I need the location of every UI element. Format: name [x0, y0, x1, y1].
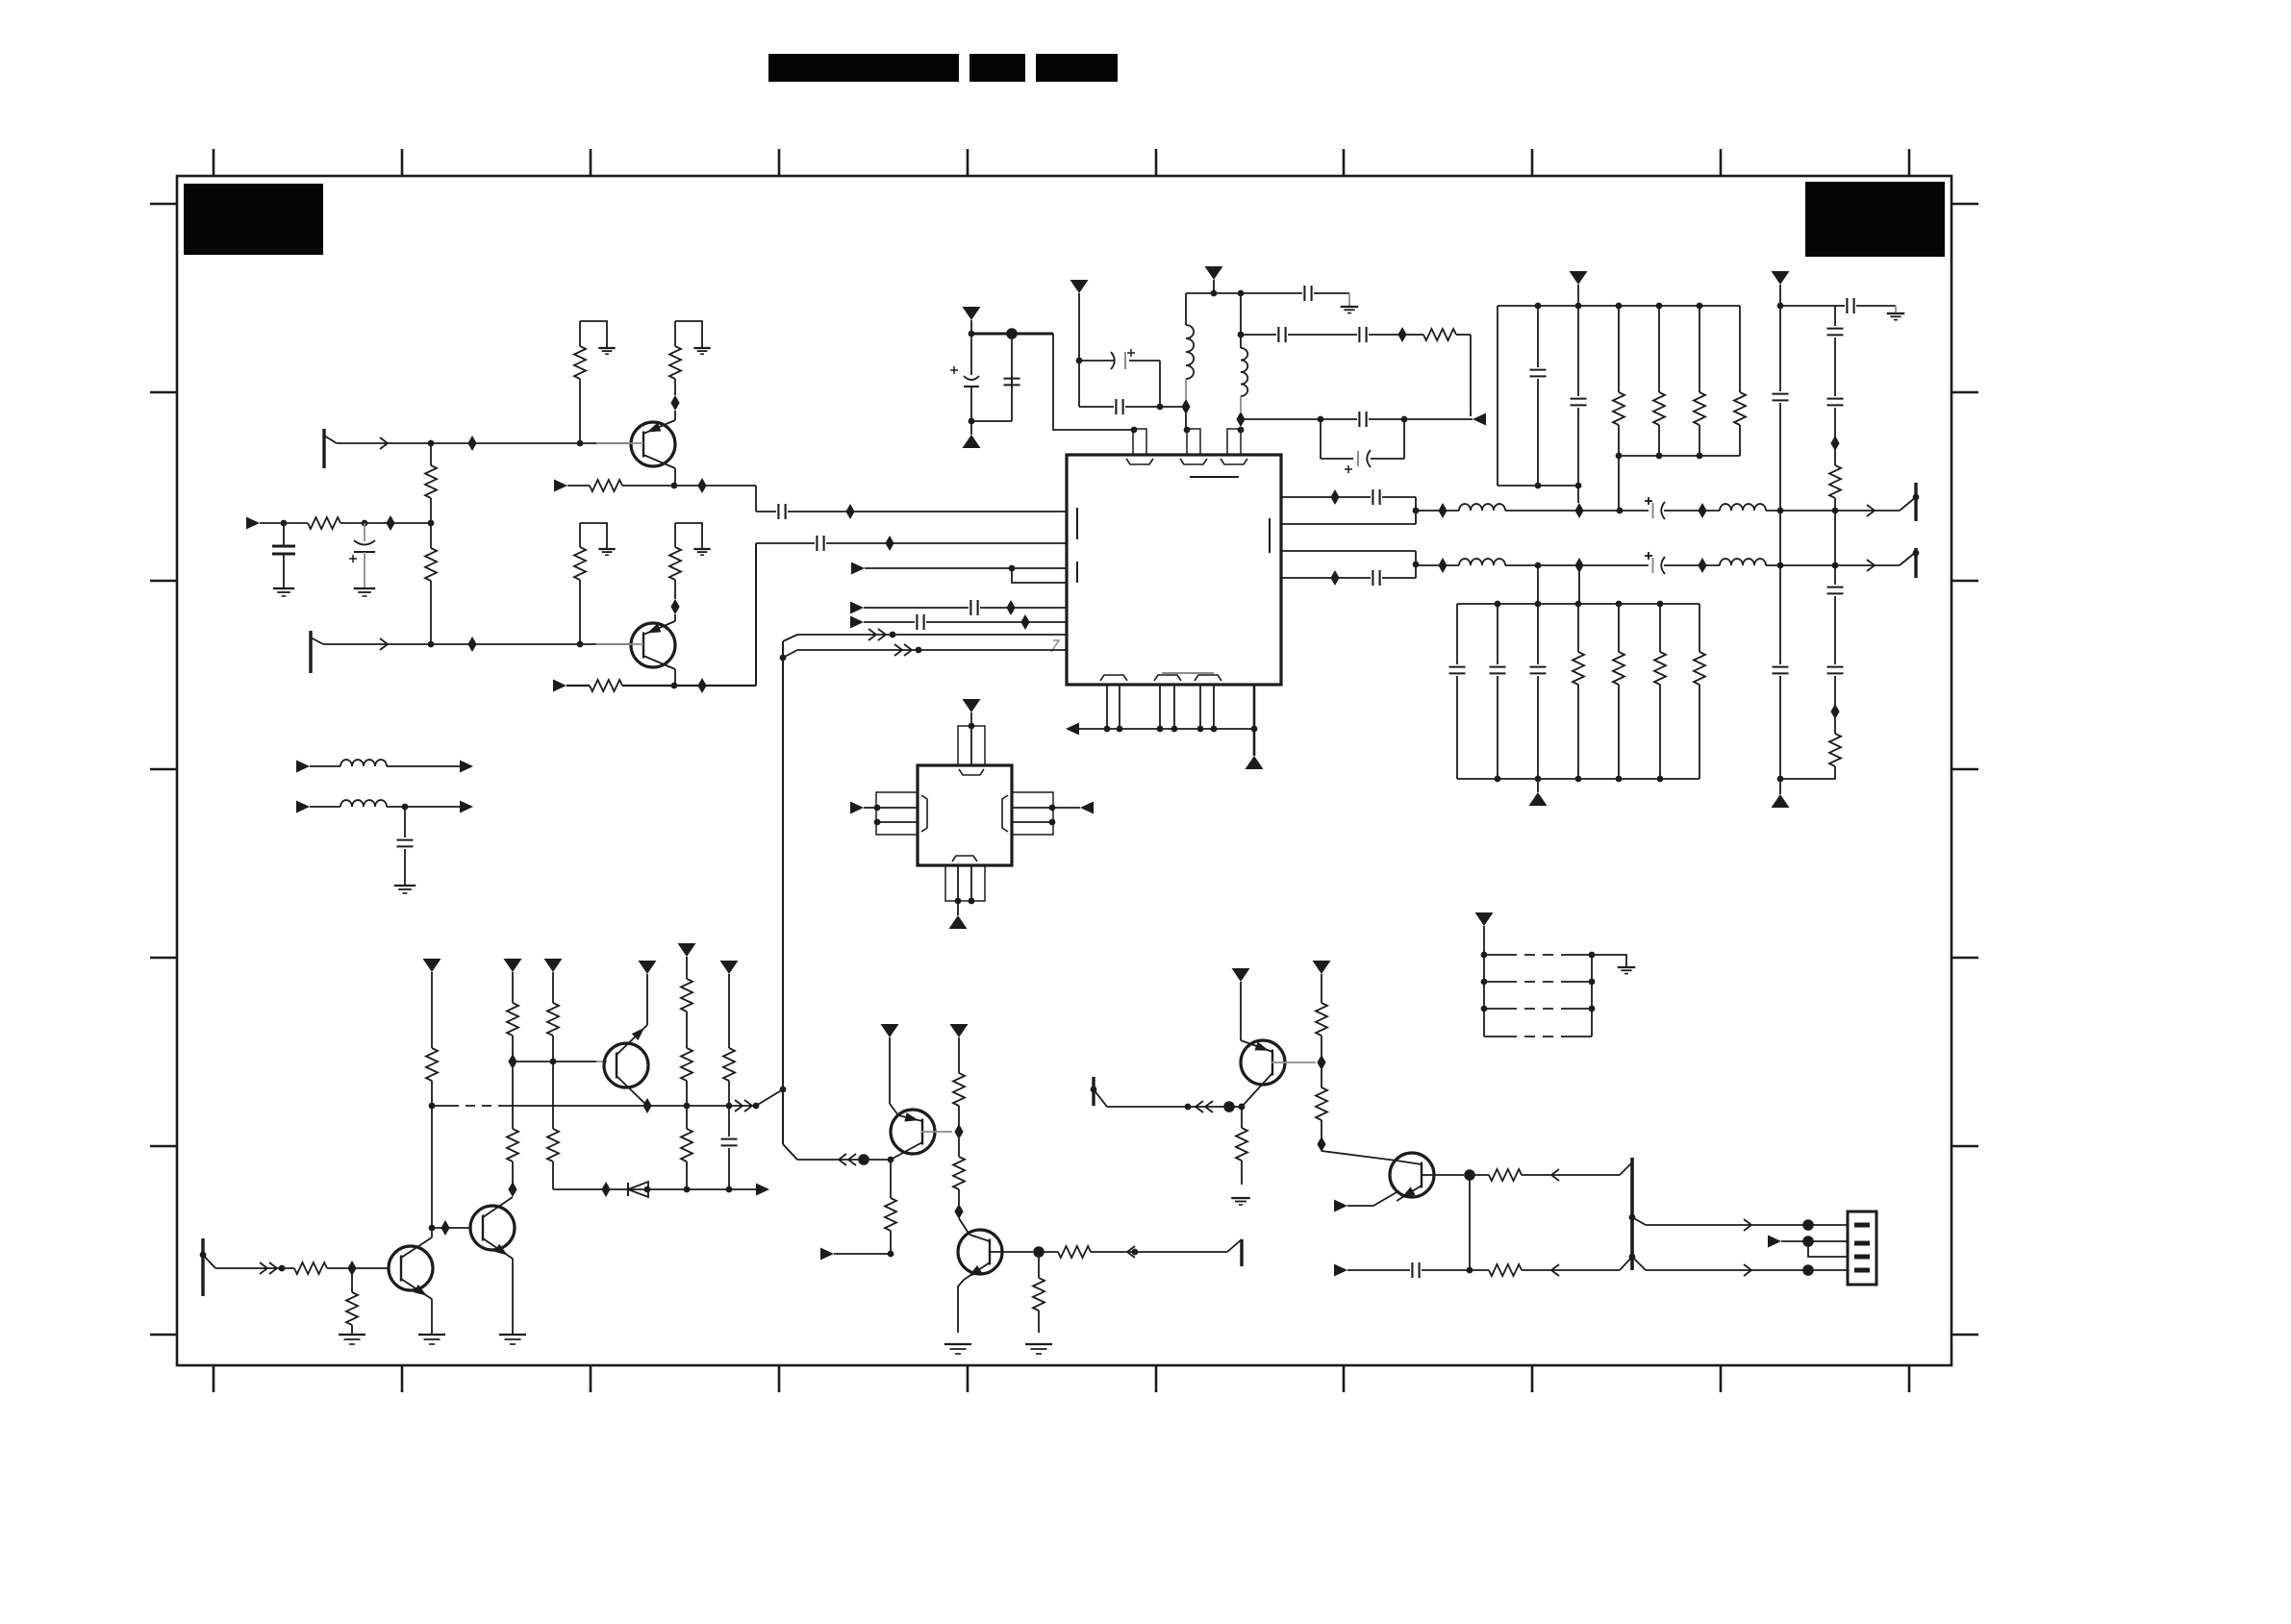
rail 533 chain	[512, 972, 514, 1003]
power arrow V14	[950, 1024, 969, 1037]
transistor Q8 PNP mirrored	[1241, 1040, 1285, 1085]
transistor Q7	[958, 1230, 1002, 1274]
jack J5	[1092, 1077, 1095, 1106]
diag to Q9 emitter	[1322, 1151, 1397, 1161]
thick supply wire	[971, 333, 1053, 336]
filter arrow out 1	[460, 761, 473, 773]
power arrow V8	[504, 959, 522, 972]
transistor Q6 PNP mirrored	[891, 1110, 935, 1154]
wire corner to IC pin a	[755, 486, 757, 512]
wire R8 bus to line1	[1618, 456, 1620, 511]
ground arrow lower bank	[1537, 779, 1539, 792]
corner label block top-left	[184, 184, 323, 255]
Q8 base wire	[1271, 1062, 1316, 1063]
wire U1 left pin c	[851, 562, 865, 575]
right column C22 C23 R17	[1834, 565, 1836, 585]
U2 ground arrow	[957, 901, 959, 915]
node U1 pin2 top	[1184, 427, 1191, 434]
input arrow mid	[246, 517, 260, 530]
U2 left socket	[921, 795, 927, 832]
power arrow V5	[1772, 271, 1790, 285]
Q8 emitter rail	[1240, 982, 1242, 1040]
corner label block top-right	[1805, 182, 1945, 257]
power arrow V1	[963, 307, 981, 320]
audio line 2	[1416, 564, 1459, 566]
bottom row capacitor C25 R33	[1334, 1264, 1347, 1277]
U1 right pin tick	[1269, 518, 1271, 553]
right chain C15 C16 diamond R12	[1834, 306, 1836, 326]
connector J7 body	[1848, 1212, 1876, 1285]
capacitor C2 electrolytic	[364, 523, 365, 541]
resistor R32 row	[1470, 1174, 1489, 1176]
long bus wire from U1 to switch section	[782, 641, 784, 1144]
lower bank bottom bus	[1457, 778, 1699, 780]
jack line1 output	[1900, 497, 1916, 511]
bracket and ground R4	[675, 321, 702, 347]
power arrow V2	[1070, 280, 1089, 293]
jack J6 lower lead	[1620, 1257, 1632, 1270]
resistor R11	[1739, 306, 1741, 392]
Q2 emitter lead	[674, 614, 676, 621]
U1 top pin 3	[1227, 429, 1241, 455]
filter arrow out 2	[460, 801, 473, 813]
wire Q1 collector row	[554, 480, 567, 492]
base node big dot	[1033, 1246, 1045, 1258]
ground jumper	[1618, 966, 1635, 968]
power arrow V16	[1313, 961, 1331, 974]
resistor R31 Q8 collector	[1241, 1107, 1243, 1128]
wire diamond link down	[1578, 565, 1580, 604]
resistor R3 pull Q1 base	[579, 321, 581, 346]
transistor Q1 PNP	[631, 422, 675, 466]
Q7 base wire	[989, 1251, 1033, 1253]
diode D1	[627, 1183, 629, 1196]
U2 bottom socket	[952, 856, 977, 862]
U1 top pin 1	[1133, 429, 1146, 455]
arrow left marker	[1473, 413, 1486, 426]
power arrow V17	[1475, 912, 1494, 926]
filter arrow in 2	[296, 801, 310, 813]
U1 bottom bus	[1066, 723, 1079, 736]
U1 bottom pin sockets	[1100, 675, 1127, 681]
link line1-line2 column b	[1834, 511, 1836, 565]
wire V2 down	[1078, 293, 1080, 361]
arrow end line 1237	[756, 1184, 769, 1196]
capacitor C13 to ground	[1835, 305, 1845, 307]
input jack J1	[322, 429, 325, 468]
diagonal to long bus	[756, 1089, 783, 1106]
wire to coil L1 node	[1160, 406, 1182, 408]
transistor Q9	[1390, 1153, 1434, 1197]
title redaction bar 1	[768, 54, 959, 82]
rail 449 with R18	[431, 972, 433, 1048]
rail 575 chain	[552, 972, 554, 1003]
resistor R15	[1659, 604, 1661, 652]
Q7 emitter diag	[959, 1218, 969, 1235]
U1 label line bottom	[1162, 672, 1214, 674]
ground arrow right column	[1779, 779, 1781, 794]
jack J6 tall bar	[1620, 1162, 1632, 1175]
power arrow V7	[423, 959, 441, 972]
wire input 3	[215, 1267, 294, 1269]
wire J5 to Q8 collector	[1107, 1106, 1242, 1108]
power arrow V15	[1232, 968, 1250, 982]
Q5 emitter to ground	[431, 1299, 433, 1334]
line 1237 diode row	[553, 1188, 756, 1190]
wire L1 top corner	[1186, 292, 1214, 294]
rail 997 chain R25 R26	[958, 1037, 960, 1073]
rail 715 lower resistor R22	[686, 1106, 688, 1129]
title redaction bar 2	[969, 54, 1025, 82]
wire U1 right pin 4	[1281, 577, 1371, 579]
ground Q5	[418, 1334, 445, 1336]
capacitor C7 to ground	[1241, 292, 1302, 294]
wire C12 to line1	[1577, 486, 1579, 503]
ground arrow up	[970, 421, 972, 435]
wire to L2 top	[1214, 292, 1241, 294]
connector J7 pins	[1854, 1223, 1870, 1228]
capacitor C6	[1078, 361, 1080, 407]
resistor R5 pull Q2 base	[579, 523, 581, 547]
capacitor C4	[971, 420, 1012, 422]
resistor R19 to ground	[351, 1268, 353, 1292]
audio line 1	[1416, 510, 1459, 512]
rail 758 capacitor C24	[728, 1106, 730, 1137]
Q5 collector link	[431, 1228, 433, 1237]
resistor R24 below Q6	[890, 1160, 892, 1198]
U2 top socket	[959, 769, 984, 775]
U1 label line top	[1190, 476, 1239, 478]
capacitor C26	[404, 807, 406, 837]
rail 1374 chain R29 R30	[1321, 974, 1322, 1003]
U1 ground stem and up arrow	[1253, 685, 1256, 756]
transistor Q3 PNP	[604, 1043, 648, 1087]
input jack J3	[201, 1238, 204, 1296]
right column C20 C21	[1779, 565, 1781, 664]
wire input 1 to Q1 base	[337, 442, 632, 444]
wire U1 pin3 feedback row	[1241, 418, 1357, 420]
Q3 base wire	[513, 1061, 596, 1062]
U2 right socket	[1002, 795, 1008, 832]
diamond L2 bottom	[1236, 412, 1245, 427]
wire U1 right pin 3	[1281, 550, 1416, 552]
resistor R28 to ground	[1038, 1252, 1040, 1278]
branch pin3	[1808, 1241, 1848, 1257]
wire line2 tap down	[1537, 565, 1539, 604]
wire input 2 to Q2 base	[323, 643, 632, 645]
ground Q4	[499, 1334, 526, 1336]
U1 left pin ticks	[1076, 508, 1078, 539]
resistor R7	[1410, 334, 1423, 336]
wire U1 left pin e	[850, 616, 864, 629]
wire U1 right pin 2	[1281, 523, 1416, 525]
IC U2 body	[918, 765, 1012, 865]
wire leg plain	[1497, 306, 1498, 486]
diamond node Q2 emitter	[670, 599, 679, 614]
bracket and ground R6	[675, 523, 702, 548]
resistor R6 pull Q2 emitter	[674, 523, 676, 547]
capacitor C12	[1577, 306, 1579, 396]
border tick marks left	[150, 203, 177, 206]
rail 758 resistor R23	[728, 974, 730, 1048]
loop corner	[1159, 361, 1161, 407]
jack line2 output	[1900, 552, 1916, 565]
power arrow V9	[544, 959, 563, 972]
input arrow b	[820, 1248, 834, 1261]
filter arrow in 1	[296, 761, 310, 773]
bracket and ground R5	[580, 523, 607, 548]
row to connector pin4	[1646, 1269, 1848, 1271]
wire U1 right pin 1	[1281, 496, 1371, 498]
Q6 base to rail	[921, 1131, 952, 1133]
wire Q2 collector row	[553, 680, 566, 692]
resistor R1 divider upper	[430, 443, 432, 465]
wire from long bus to Q6 collector	[797, 1159, 891, 1161]
power arrow V4	[1570, 271, 1588, 285]
link down from Q9 base	[1469, 1175, 1471, 1270]
wire down to arrow node	[1470, 335, 1472, 416]
U1 bottom pin wires	[1106, 685, 1108, 729]
inductor L3	[310, 765, 340, 767]
Q3 emitter feed	[646, 974, 648, 1025]
resistor R9	[1658, 306, 1660, 392]
Q2 collector lead	[674, 669, 676, 686]
ground R19	[339, 1334, 365, 1336]
transistor Q5 input	[389, 1246, 433, 1290]
Q4 emitter to ground	[512, 1259, 514, 1334]
ground C26	[394, 885, 415, 887]
wire U1 left pin d	[850, 602, 864, 614]
capacitor C3 electrolytic	[970, 334, 972, 375]
transistor Q4 switch	[470, 1206, 515, 1250]
ground Q7	[944, 1343, 971, 1345]
arrow U2 output	[1052, 807, 1080, 809]
resistor R27	[1039, 1251, 1058, 1253]
IC U1 body	[1067, 455, 1281, 685]
wire riser to IC pin b	[755, 543, 757, 686]
input arrow pin2	[1768, 1236, 1781, 1248]
capacitor C10 electrolytic loop	[1320, 419, 1322, 459]
node V1	[970, 320, 972, 334]
rail 449 lower	[431, 1106, 433, 1228]
Q3 collector to line	[646, 1105, 648, 1107]
wire row with C8 C9 to resistor	[1241, 334, 1276, 336]
lower bank top bus	[1457, 603, 1699, 605]
U1 top pin 2	[1187, 429, 1200, 455]
U1 top pin sockets	[1126, 459, 1153, 464]
resistor bank bottom bus	[1619, 455, 1740, 457]
wire U1 left pin f	[783, 635, 797, 641]
border tick marks right	[1951, 203, 1978, 206]
rail 715 upper resistors R20 R21	[686, 957, 688, 979]
power arrow V11	[678, 943, 696, 957]
Q1 emitter lead	[674, 411, 676, 420]
title redaction bar 3	[1036, 54, 1118, 82]
jumper rows dashed	[1484, 954, 1506, 956]
power arrow V10	[639, 961, 657, 974]
jumper right rail	[1591, 955, 1593, 1037]
Q4 base wire	[432, 1227, 470, 1229]
U2 bottom pin block	[945, 865, 985, 901]
capacitor C17	[1456, 604, 1458, 664]
dashed control line	[432, 1105, 449, 1107]
resistor R10	[1699, 306, 1700, 392]
power arrow V6	[963, 699, 981, 712]
power arrow V13	[881, 1024, 899, 1037]
bottom corner link	[1780, 766, 1835, 779]
resistor R16	[1699, 604, 1700, 652]
jumper ground lead	[1592, 955, 1626, 966]
inductor L2	[1240, 293, 1242, 335]
resistor R13	[1577, 604, 1579, 652]
upper cap bank top bus	[1498, 305, 1740, 307]
inductor L1	[1185, 293, 1187, 325]
jumper left rail	[1483, 955, 1485, 1037]
resistor R4 pull Q1 emitter	[674, 321, 676, 346]
power arrow V3	[1205, 266, 1223, 280]
capacitor C5 electrolytic horizontal	[1111, 352, 1115, 369]
resistor R2 divider lower	[430, 523, 432, 548]
capacitor C19	[1537, 604, 1539, 664]
transistor Q2 PNP	[631, 623, 675, 667]
input jack J2	[309, 631, 312, 673]
resistor R14	[1618, 604, 1620, 652]
Q1 collector lead	[674, 468, 676, 486]
resistor R8	[1618, 306, 1620, 392]
bracket and ground R3	[580, 321, 607, 347]
ground below C2	[354, 587, 375, 589]
capacitor C18	[1497, 604, 1498, 664]
border tick marks bottom	[213, 1365, 215, 1392]
sheet border frame	[177, 176, 1951, 1365]
Q6 emitter rail	[889, 1037, 891, 1104]
U2 right pin block	[1012, 792, 1053, 835]
row to connector pin1	[1632, 1217, 1646, 1225]
Q7 collector to ground	[958, 1280, 964, 1333]
link line1-line2 column a	[1779, 511, 1781, 565]
U2 top pin	[958, 726, 985, 765]
wire U1 left pin g	[783, 650, 797, 658]
wire mid input node	[284, 522, 308, 524]
U1 pin notch wire g	[1051, 640, 1059, 652]
wire to U1 pin1	[1053, 334, 1134, 430]
inductor L4	[310, 806, 340, 808]
capacitor C1 input shunt	[283, 523, 285, 546]
U2 left pin block	[876, 792, 918, 835]
border tick marks top	[213, 149, 215, 176]
ground Q8	[1231, 1197, 1250, 1199]
supply link wire	[1780, 305, 1835, 307]
ground below C1	[273, 587, 294, 589]
input arrow U2	[850, 802, 864, 814]
capacitor C14	[1779, 306, 1781, 391]
jack J4	[1227, 1239, 1242, 1252]
power arrow V12	[720, 961, 739, 974]
node Q9 base	[1464, 1169, 1475, 1181]
input arrow Q9	[1334, 1200, 1347, 1212]
capacitor C11	[1537, 306, 1539, 367]
ground R28	[1025, 1343, 1052, 1345]
wire branch pin c2	[1012, 568, 1067, 583]
Q9 base wire	[1421, 1174, 1464, 1176]
upper cap bank bottom bus	[1498, 485, 1578, 487]
diamond node Q1 emitter	[670, 395, 679, 411]
